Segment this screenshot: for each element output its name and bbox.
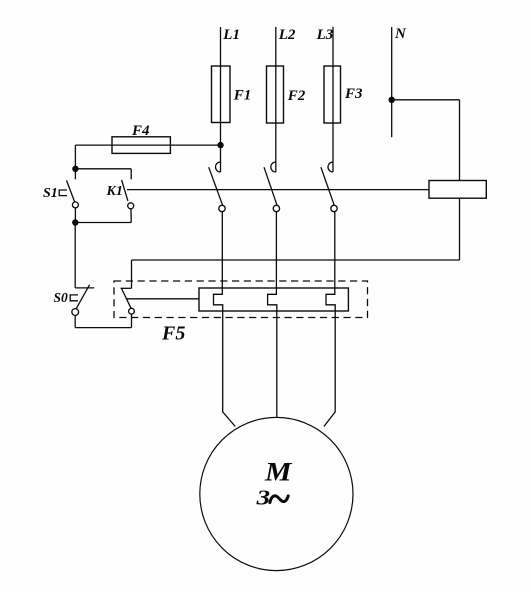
- svg-text:F1: F1: [233, 88, 252, 104]
- svg-text:F3: F3: [344, 86, 363, 102]
- svg-text:L2: L2: [278, 27, 296, 43]
- svg-text:F4: F4: [131, 123, 150, 139]
- svg-text:K1: K1: [106, 184, 123, 199]
- svg-text:L3: L3: [316, 27, 334, 43]
- svg-text:L1: L1: [222, 27, 240, 43]
- svg-text:S0: S0: [54, 290, 69, 305]
- svg-text:F5: F5: [161, 323, 185, 345]
- svg-text:3: 3: [255, 486, 270, 510]
- svg-text:F2: F2: [287, 88, 306, 104]
- svg-text:S1: S1: [43, 186, 58, 201]
- svg-text:M: M: [264, 458, 293, 487]
- svg-text:N: N: [394, 26, 407, 42]
